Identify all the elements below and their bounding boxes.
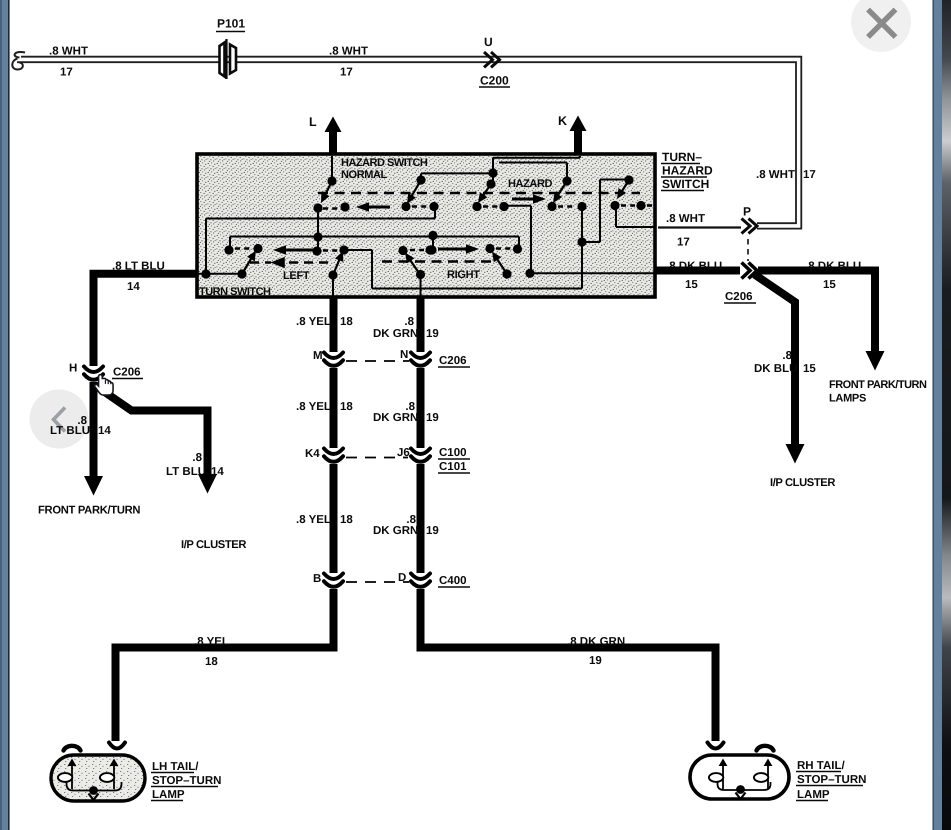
- svg-text:LT BLU: LT BLU: [50, 425, 90, 437]
- svg-text:D: D: [398, 572, 406, 584]
- svg-text:14: 14: [98, 425, 111, 437]
- svg-text:K: K: [558, 114, 567, 128]
- svg-text:DK GRN: DK GRN: [373, 328, 418, 340]
- svg-text:15: 15: [823, 279, 836, 291]
- svg-text:B: B: [313, 573, 321, 585]
- svg-text:.8 LT BLU: .8 LT BLU: [112, 261, 165, 273]
- svg-text:TURN–: TURN–: [662, 150, 702, 164]
- svg-text:.8 WHT: .8 WHT: [329, 46, 368, 58]
- svg-text:19: 19: [589, 655, 602, 667]
- svg-text:DK GRN: DK GRN: [373, 525, 418, 537]
- svg-text:.8 YEL: .8 YEL: [296, 316, 331, 328]
- svg-text:14: 14: [211, 466, 224, 478]
- svg-text:FRONT PARK/TURN: FRONT PARK/TURN: [829, 379, 927, 391]
- svg-text:J6: J6: [397, 447, 410, 459]
- svg-text:LAMPS: LAMPS: [829, 393, 866, 405]
- svg-text:C100: C100: [439, 447, 467, 459]
- svg-text:18: 18: [340, 401, 353, 413]
- svg-text:LT BLU: LT BLU: [166, 466, 206, 478]
- svg-text:.8 YEL: .8 YEL: [296, 401, 331, 413]
- svg-text:.8 WHT: .8 WHT: [756, 169, 795, 181]
- svg-text:C101: C101: [439, 461, 467, 473]
- svg-text:HAZARD SWITCH: HAZARD SWITCH: [341, 157, 428, 169]
- svg-text:RH TAIL/: RH TAIL/: [797, 760, 846, 772]
- svg-text:.8 WHT: .8 WHT: [49, 46, 88, 58]
- svg-text:18: 18: [340, 316, 353, 328]
- svg-text:C206: C206: [439, 355, 467, 367]
- svg-text:FRONT PARK/TURN: FRONT PARK/TURN: [38, 505, 140, 517]
- svg-text:15: 15: [685, 279, 698, 291]
- svg-text:K4: K4: [305, 448, 320, 460]
- svg-text:HAZARD: HAZARD: [508, 178, 552, 190]
- svg-text:.8: .8: [404, 316, 414, 328]
- svg-text:C200: C200: [480, 74, 509, 88]
- svg-text:.8 DK BLU: .8 DK BLU: [666, 261, 722, 273]
- svg-text:LAMP: LAMP: [797, 789, 830, 801]
- svg-text:I/P CLUSTER: I/P CLUSTER: [770, 477, 835, 489]
- svg-text:19: 19: [426, 525, 439, 537]
- svg-text:I/P CLUSTER: I/P CLUSTER: [181, 539, 246, 551]
- svg-text:RIGHT: RIGHT: [447, 269, 480, 281]
- svg-text:19: 19: [426, 412, 439, 424]
- svg-text:P101: P101: [217, 17, 245, 31]
- svg-text:LAMP: LAMP: [152, 789, 185, 801]
- svg-text:LEFT: LEFT: [283, 270, 310, 282]
- svg-text:H: H: [69, 363, 77, 375]
- svg-text:C206: C206: [113, 367, 141, 379]
- svg-text:LH TAIL/: LH TAIL/: [152, 761, 199, 773]
- svg-text:M: M: [313, 350, 323, 362]
- svg-text:.8: .8: [782, 350, 792, 362]
- svg-text:18: 18: [340, 514, 353, 526]
- svg-text:SWITCH: SWITCH: [662, 177, 709, 191]
- svg-text:P: P: [743, 205, 751, 219]
- svg-text:.8 DK GRN: .8 DK GRN: [567, 636, 625, 648]
- svg-text:NORMAL: NORMAL: [341, 169, 388, 181]
- svg-text:U: U: [484, 35, 493, 49]
- svg-text:C400: C400: [439, 575, 467, 587]
- svg-text:.8 YEL: .8 YEL: [194, 636, 229, 648]
- svg-text:HAZARD: HAZARD: [662, 164, 713, 178]
- svg-text:17: 17: [677, 237, 690, 249]
- svg-text:.8: .8: [192, 452, 202, 464]
- svg-text:DK GRN: DK GRN: [373, 412, 418, 424]
- svg-text:18: 18: [205, 656, 218, 668]
- svg-text:.8 DK BLU: .8 DK BLU: [805, 261, 861, 273]
- svg-text:19: 19: [426, 328, 439, 340]
- svg-text:DK BLU: DK BLU: [754, 363, 797, 375]
- svg-text:C206: C206: [725, 291, 753, 303]
- svg-text:L: L: [309, 115, 317, 129]
- svg-text:17: 17: [60, 67, 73, 79]
- svg-text:STOP–TURN: STOP–TURN: [152, 775, 221, 787]
- svg-text:.8 WHT: .8 WHT: [666, 213, 705, 225]
- svg-text:N: N: [400, 349, 408, 361]
- svg-text:.8 YEL: .8 YEL: [296, 514, 331, 526]
- svg-text:15: 15: [803, 363, 816, 375]
- svg-text:17: 17: [340, 67, 353, 79]
- svg-text:14: 14: [127, 281, 140, 293]
- svg-text:TURN SWITCH: TURN SWITCH: [199, 286, 271, 298]
- svg-text:17: 17: [803, 169, 816, 181]
- svg-text:STOP–TURN: STOP–TURN: [797, 774, 866, 786]
